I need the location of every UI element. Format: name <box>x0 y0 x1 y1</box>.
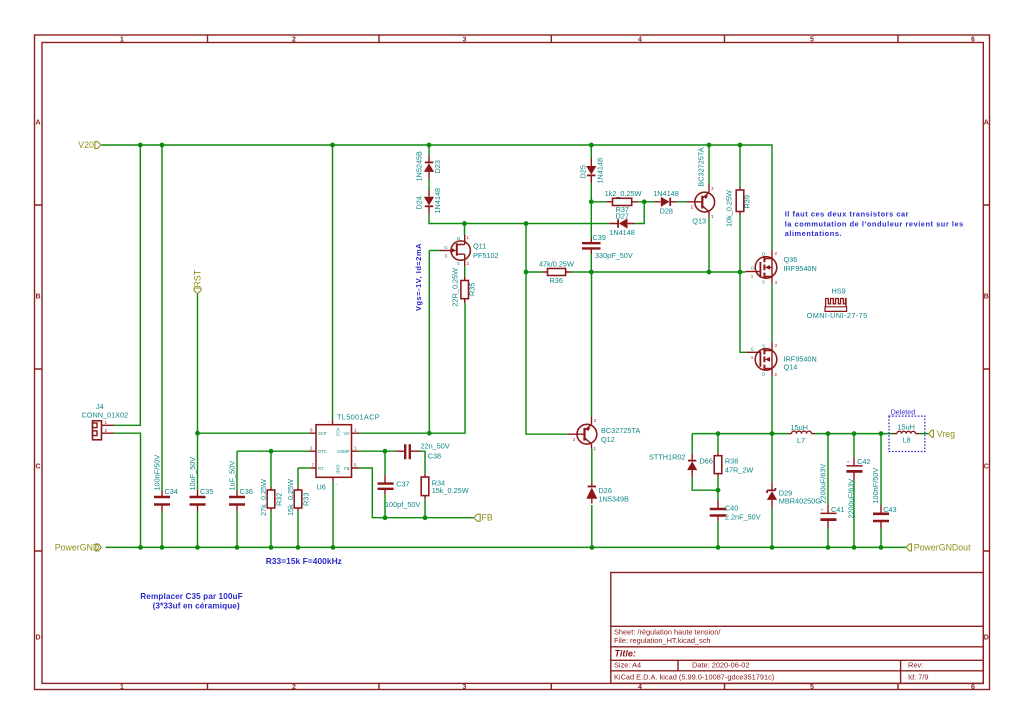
svg-text:1uF_50V: 1uF_50V <box>228 461 237 491</box>
svg-text:6: 6 <box>971 684 975 691</box>
svg-text:2.2nF_50V: 2.2nF_50V <box>725 513 761 522</box>
svg-text:PowerGNDout: PowerGNDout <box>914 543 971 553</box>
hierarchical label V20 <box>78 140 101 150</box>
svg-text:CONN_01X02: CONN_01X02 <box>82 411 129 420</box>
transistor Q12 BC327 <box>568 417 641 452</box>
svg-text:S: S <box>762 280 765 285</box>
capacitor C40 <box>710 500 761 522</box>
svg-text:D: D <box>762 372 765 377</box>
svg-text:5: 5 <box>810 37 814 44</box>
schottky diode D29 <box>767 482 821 508</box>
title block <box>611 573 984 684</box>
svg-text:R36: R36 <box>550 276 563 285</box>
svg-text:D: D <box>457 236 460 241</box>
svg-text:BC32725TA: BC32725TA <box>601 426 640 435</box>
svg-text:L8: L8 <box>903 436 911 445</box>
svg-text:+: + <box>847 460 850 465</box>
wire J4 pin1 to V20 <box>114 145 140 425</box>
inductor L8 <box>893 423 919 445</box>
wire DTC row <box>237 450 309 452</box>
svg-text:C: C <box>984 464 989 471</box>
svg-text:Title:: Title: <box>615 649 636 659</box>
svg-text:1N5349B: 1N5349B <box>599 495 630 504</box>
resistor R36 <box>539 260 574 285</box>
svg-text:B: B <box>984 294 989 301</box>
svg-text:Deleted: Deleted <box>891 409 916 416</box>
svg-text:2200uF/63V: 2200uF/63V <box>847 479 856 519</box>
resistor R37 <box>605 189 642 214</box>
svg-text:100nF/50V: 100nF/50V <box>153 455 162 491</box>
wire Q13 collector <box>708 217 710 272</box>
wire D66 branch <box>692 434 718 491</box>
wire Q13 emitter <box>708 145 710 184</box>
wire RT row <box>298 467 311 469</box>
junction node D24-D27 row <box>462 221 528 226</box>
diode D24 <box>415 188 443 215</box>
wire R34 bottom <box>424 499 426 517</box>
wire C39 branch <box>590 202 592 272</box>
svg-text:1N5245B: 1N5245B <box>415 151 424 182</box>
junction PowerGND net <box>138 545 883 550</box>
svg-text:U6: U6 <box>317 483 326 492</box>
svg-text:R33: R33 <box>302 493 311 506</box>
svg-text:alimentations.: alimentations. <box>785 229 842 238</box>
wire C37 branch <box>384 451 386 518</box>
JFET Q11 PF5102 <box>440 235 499 266</box>
heatsink HS9 <box>807 287 868 320</box>
diode D27 <box>609 212 635 237</box>
diode D66 <box>649 453 713 478</box>
svg-text:22R_0.25W: 22R_0.25W <box>450 268 459 307</box>
wire FB row <box>359 468 474 518</box>
capacitor C39 <box>582 233 633 260</box>
wire Q11 source to R35 <box>464 266 466 277</box>
wire D27 right corner <box>635 202 644 224</box>
svg-text:4: 4 <box>638 37 642 44</box>
svg-text:Q11: Q11 <box>473 242 486 251</box>
svg-text:A: A <box>984 120 989 127</box>
transistor Q13 BC327 <box>687 147 715 225</box>
svg-text:10uF_50V: 10uF_50V <box>188 457 197 491</box>
wire C34 branch <box>161 145 163 547</box>
wire gate line down to VO <box>428 251 430 434</box>
svg-text:4: 4 <box>638 684 642 691</box>
wire x526 vertical <box>526 224 568 435</box>
wire output row <box>692 433 928 435</box>
svg-text:15k_0.25W: 15k_0.25W <box>432 486 469 495</box>
svg-text:C40: C40 <box>725 504 738 513</box>
svg-text:Size: A4: Size: A4 <box>614 661 641 670</box>
resistor R35 <box>450 268 476 307</box>
zener diode D26 <box>586 484 629 548</box>
svg-text:27k_0.25W: 27k_0.25W <box>259 479 268 516</box>
wire PowerGND horizontal <box>106 546 907 548</box>
wire R36 row <box>526 271 591 273</box>
hierarchical label Vreg <box>929 429 956 439</box>
svg-text:C43: C43 <box>883 505 896 514</box>
svg-text:Q12: Q12 <box>601 435 615 444</box>
svg-text:Q14: Q14 <box>784 363 798 372</box>
svg-text:1: 1 <box>120 684 124 691</box>
junction V20 net <box>138 143 742 148</box>
svg-text:D: D <box>35 635 40 642</box>
junction U6 rows <box>195 431 432 520</box>
wire Q36 source to Q14 drain <box>771 283 773 342</box>
svg-text:1N4148: 1N4148 <box>609 228 635 237</box>
svg-text:C39: C39 <box>593 233 606 242</box>
svg-text:S: S <box>762 344 765 349</box>
svg-text:BC32725TA: BC32725TA <box>696 147 705 186</box>
svg-text:RT: RT <box>318 466 324 471</box>
svg-text:G: G <box>751 346 754 351</box>
diode D25 <box>578 158 604 184</box>
resistor R32 <box>259 479 284 516</box>
svg-text:G: G <box>751 265 754 270</box>
svg-text:D25: D25 <box>578 165 587 178</box>
svg-text:6: 6 <box>971 37 975 44</box>
wire V20 horizontal <box>102 145 773 250</box>
svg-text:D23: D23 <box>433 160 442 173</box>
svg-text:2: 2 <box>292 684 296 691</box>
svg-text:VO: VO <box>343 431 350 436</box>
junction output net <box>716 431 884 492</box>
svg-text:Il faut ces deux transistors c: Il faut ces deux transistors car <box>785 210 909 219</box>
svg-text:Id: 7/9: Id: 7/9 <box>908 673 929 682</box>
svg-text:Q13: Q13 <box>692 217 706 226</box>
svg-text:A: A <box>35 120 40 127</box>
junction node R37 output <box>589 199 647 204</box>
svg-text:KiCad E.D.A. kicad (5.99.0-10: KiCad E.D.A. kicad (5.99.0-10087-gdce351… <box>614 673 774 682</box>
svg-text:3: 3 <box>463 37 467 44</box>
wire R39 top <box>739 145 741 187</box>
wire R38 branch <box>717 434 719 491</box>
svg-text:PF5102: PF5102 <box>473 251 499 260</box>
svg-text:V20: V20 <box>78 140 94 150</box>
svg-text:OMNI-UNI-27-75: OMNI-UNI-27-75 <box>807 311 868 320</box>
wire U6 GND branch <box>332 482 334 548</box>
hierarchical label PowerGND <box>55 543 102 553</box>
svg-text:DTC: DTC <box>318 449 327 454</box>
diode D28 <box>653 189 679 215</box>
wire C40 branch <box>717 490 719 547</box>
svg-text:File: regulation_HT.kicad_sch: File: regulation_HT.kicad_sch <box>614 636 711 645</box>
svg-text:Remplacer C35 par 100uF: Remplacer C35 par 100uF <box>140 592 242 601</box>
svg-text:3: 3 <box>463 684 467 691</box>
svg-text:FB: FB <box>344 466 350 471</box>
zener diode D23 <box>415 151 443 182</box>
svg-text:IRF9540N: IRF9540N <box>784 264 817 273</box>
svg-text:Rev:: Rev: <box>908 661 923 670</box>
svg-text:D: D <box>762 252 765 257</box>
svg-text:la commutation de l'onduleur r: la commutation de l'onduleur revient sur… <box>785 220 964 229</box>
wire D23 D24 branch <box>429 145 609 224</box>
resistor R39 <box>725 187 752 228</box>
wire R37 row <box>591 201 644 203</box>
svg-text:100nF/50V: 100nF/50V <box>871 468 880 504</box>
svg-text:D27: D27 <box>616 212 629 221</box>
resistor R33 <box>286 479 311 516</box>
wire Q11 gate <box>429 250 439 252</box>
wire C41 branch <box>827 434 829 548</box>
svg-text:330pF_50V: 330pF_50V <box>595 251 633 260</box>
svg-text:+: + <box>821 508 824 513</box>
svg-text:15uH: 15uH <box>791 423 808 432</box>
wire Q12 emitter branch <box>591 272 593 417</box>
svg-text:L7: L7 <box>797 436 805 445</box>
capacitor C43 <box>871 468 897 529</box>
svg-text:D: D <box>984 635 989 642</box>
svg-text:TL5001ACP: TL5001ACP <box>337 413 380 422</box>
wire Q11 drain <box>464 224 466 236</box>
svg-text:5: 5 <box>810 684 814 691</box>
wire SCP to U6 <box>198 432 310 434</box>
svg-text:100pf_50V: 100pf_50V <box>385 500 420 509</box>
capacitor C42 <box>846 457 870 519</box>
svg-text:1N4148: 1N4148 <box>596 158 605 184</box>
capacitor C36 <box>228 461 253 511</box>
svg-text:1: 1 <box>120 37 124 44</box>
svg-text:Vreg: Vreg <box>937 429 955 439</box>
svg-text:PowerGND: PowerGND <box>55 543 99 553</box>
svg-text:C: C <box>35 464 40 471</box>
svg-text:COMP: COMP <box>337 449 350 454</box>
MOSFET Q14 IRF9540N <box>747 342 817 377</box>
svg-text:2: 2 <box>292 37 296 44</box>
wire R39 bottom to Q14 gate <box>740 215 747 352</box>
wire Q14 source down <box>771 377 773 434</box>
wire R32 branch <box>270 451 272 547</box>
inductor L7 <box>788 423 815 445</box>
wire C42 branch <box>853 434 855 548</box>
svg-text:R39: R39 <box>743 195 752 208</box>
svg-text:STTH1R02: STTH1R02 <box>649 453 686 462</box>
svg-text:D66: D66 <box>700 456 713 465</box>
svg-text:S: S <box>457 261 460 266</box>
wire D25 branch <box>590 145 592 202</box>
capacitor C34 <box>153 455 178 511</box>
svg-text:SCP: SCP <box>318 431 327 436</box>
hierarchical label FB <box>474 513 493 523</box>
wire VO row <box>359 303 465 433</box>
resistor R38 <box>714 452 753 477</box>
svg-text:R35: R35 <box>467 283 476 296</box>
svg-text:15k_0.25W: 15k_0.25W <box>286 479 295 516</box>
junction gate row <box>524 270 743 275</box>
svg-text:1N4148: 1N4148 <box>653 189 679 198</box>
svg-text:Date: 2020-06-02: Date: 2020-06-02 <box>692 661 750 670</box>
capacitor C41 <box>818 464 844 529</box>
wire D29 branch <box>771 434 773 548</box>
svg-text:47k/0.25W: 47k/0.25W <box>539 260 574 269</box>
note text transistors <box>785 210 964 239</box>
svg-text:HS9: HS9 <box>832 287 846 296</box>
svg-text:2200uF/63V: 2200uF/63V <box>818 464 827 504</box>
wire C43 branch <box>880 434 882 548</box>
IC U6 TL5001ACP <box>309 413 380 492</box>
wire RST to C35 to PowerGND <box>197 294 199 547</box>
wire C36 branch <box>236 451 238 547</box>
svg-text:FB: FB <box>482 513 493 523</box>
svg-text:VCC: VCC <box>336 428 341 437</box>
svg-text:C37: C37 <box>396 480 409 489</box>
svg-text:G: G <box>444 245 447 250</box>
wire COMP row <box>359 451 425 474</box>
svg-text:(3*33uf en céramique): (3*33uf en céramique) <box>153 601 240 610</box>
wire D28 row <box>644 201 687 203</box>
svg-text:Vgs=-1V, Id=2mA: Vgs=-1V, Id=2mA <box>414 243 423 311</box>
svg-text:C38: C38 <box>428 452 441 461</box>
wire U6 VCC branch <box>332 145 334 420</box>
svg-text:Q36: Q36 <box>784 255 798 264</box>
svg-text:D24: D24 <box>415 196 424 209</box>
svg-text:B: B <box>35 294 40 301</box>
svg-text:R32: R32 <box>275 493 284 506</box>
capacitor C38 <box>396 442 450 461</box>
svg-text:MBR40250G: MBR40250G <box>779 496 822 505</box>
hierarchical label PowerGNDout <box>906 543 971 553</box>
svg-text:22n_50V: 22n_50V <box>421 442 450 451</box>
svg-text:GND: GND <box>336 465 341 474</box>
deleted box around L8 <box>889 416 925 451</box>
svg-text:15uH: 15uH <box>898 423 915 432</box>
svg-text:D28: D28 <box>660 206 673 215</box>
svg-text:R38: R38 <box>725 457 738 466</box>
capacitor C37 <box>378 475 421 509</box>
wire gate row y272 <box>591 271 745 273</box>
svg-text:1k2_0.25W: 1k2_0.25W <box>605 189 642 198</box>
MOSFET Q36 IRF9540N <box>746 250 817 285</box>
wire R33 branch <box>297 468 299 547</box>
svg-text:C42: C42 <box>857 457 870 466</box>
svg-text:10k_0.25W: 10k_0.25W <box>725 190 734 227</box>
svg-text:C36: C36 <box>240 487 253 496</box>
resistor R34 <box>421 474 469 500</box>
svg-text:1N4148: 1N4148 <box>433 188 442 214</box>
hierarchical label RST <box>192 269 202 294</box>
svg-text:RST: RST <box>192 269 202 287</box>
svg-text:47R_2W: 47R_2W <box>725 466 754 475</box>
svg-text:R33=15k F=400kHz: R33=15k F=400kHz <box>266 556 342 566</box>
wire J4 pin2 to PowerGND <box>114 433 141 547</box>
svg-text:C35: C35 <box>200 487 213 496</box>
note text remplacer C35 <box>140 592 242 611</box>
wire Q12 collector to D26 <box>591 449 593 484</box>
capacitor C35 <box>188 457 213 511</box>
connector J4 <box>82 402 129 440</box>
svg-text:C41: C41 <box>831 505 844 514</box>
svg-text:C34: C34 <box>165 487 178 496</box>
